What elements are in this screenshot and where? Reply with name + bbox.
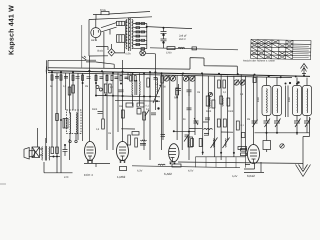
IF transformer 2	[188, 137, 193, 147]
mains transformer T1 primary	[126, 20, 127, 50]
scan mark	[0, 183, 6, 185]
tap contact boxes	[136, 23, 145, 50]
output transformer	[40, 138, 61, 161]
V2 socket box	[120, 167, 127, 171]
trimmer mid	[194, 118, 199, 125]
gang dots	[266, 83, 299, 134]
right vertical wires mid	[163, 74, 257, 161]
coil box terminals	[69, 134, 77, 143]
cap C24	[205, 118, 210, 120]
resistor R14	[56, 114, 59, 121]
cathode resistor R9	[56, 147, 59, 154]
mid vertical wires	[113, 54, 162, 160]
bypass cap C9	[63, 145, 68, 156]
variable capacitor 1b	[274, 116, 281, 133]
mains transformer T1 core	[126, 18, 131, 52]
svg-text:1,M62: 1,M62	[117, 175, 126, 179]
svg-text:50: 50	[50, 85, 53, 88]
padder box	[63, 119, 68, 129]
svg-text:0,5: 0,5	[240, 93, 244, 96]
trimmer cap right	[252, 120, 258, 128]
AVC box	[263, 136, 271, 152]
IF transformer 1	[132, 73, 140, 106]
blob osc	[157, 107, 159, 109]
antenna	[301, 64, 308, 76]
svg-text:5000: 5000	[206, 110, 212, 113]
RF coil can 1b	[273, 77, 282, 115]
oscillator coil box	[67, 110, 82, 134]
svg-text:1M: 1M	[197, 91, 200, 94]
HT wire from rectifier	[147, 27, 192, 29]
tube V2	[117, 142, 129, 163]
svg-text:2M: 2M	[247, 118, 250, 121]
variable capacitor 2a	[294, 116, 301, 133]
power supply box	[89, 17, 152, 56]
gang mid verticals	[286, 86, 289, 118]
speaker	[24, 147, 40, 159]
RF coil can 1a	[262, 77, 271, 116]
svg-text:450 V: 450 V	[179, 38, 186, 41]
smoothing resistor R1	[166, 47, 175, 55]
tone coil 1	[210, 98, 224, 109]
small trimmer circle	[209, 93, 213, 97]
svg-text:AZ 1: AZ 1	[91, 38, 97, 42]
link wires mid-right	[189, 122, 233, 132]
voltage selector S1	[117, 21, 125, 25]
main rail M wire	[48, 71, 310, 77]
screen box left	[242, 133, 246, 138]
coil with arrow 1	[211, 138, 218, 149]
tube V1	[85, 142, 96, 163]
V4 cathode wiring	[244, 162, 264, 172]
coupling caps boxes	[126, 103, 149, 108]
tone cap row	[204, 119, 245, 135]
svg-text:0,5: 0,5	[155, 83, 159, 86]
tone resistor	[238, 147, 247, 150]
svg-text:6,A02: 6,A02	[164, 172, 172, 176]
svg-text:0,5A: 0,5A	[126, 53, 131, 56]
bottom rail wire 2	[132, 166, 240, 168]
cap C25	[98, 112, 103, 114]
cap near V3 top	[161, 135, 166, 137]
fuse 0,5A	[93, 8, 150, 19]
svg-text:4,5V: 4,5V	[188, 170, 194, 173]
rail L wire	[48, 73, 292, 78]
socket circles	[96, 84, 111, 96]
resistor R23	[220, 96, 223, 104]
extra row resistors	[130, 76, 137, 81]
bottom wire under V1	[84, 164, 110, 168]
variable capacitor 1a	[264, 116, 271, 133]
svg-text:0,1: 0,1	[63, 85, 67, 88]
rail end ticks	[45, 67, 47, 74]
junction dots	[51, 26, 305, 84]
bottom rail wire 1	[44, 172, 73, 174]
trimmer circle V4 right	[280, 144, 284, 148]
link wire V2	[121, 128, 135, 130]
output terminal strip	[196, 157, 246, 168]
svg-text:5000: 5000	[288, 96, 291, 102]
resistor R21	[122, 110, 125, 118]
mid link wire	[96, 96, 160, 102]
cap C22	[151, 113, 156, 115]
svg-text:2M: 2M	[85, 85, 88, 88]
svg-text:6,3V: 6,3V	[232, 175, 238, 178]
trimmer arrow mid	[145, 110, 149, 116]
B+ rail wire	[150, 48, 238, 50]
voltage selector S2	[117, 35, 125, 53]
svg-text:300: 300	[119, 105, 124, 108]
trimmer group 1	[163, 76, 176, 89]
gang link wires	[255, 117, 310, 137]
svg-text:0,5: 0,5	[96, 128, 100, 131]
RF coil can 2a	[293, 78, 302, 116]
junction dots extra	[60, 95, 235, 154]
V2 cathode cluster	[128, 135, 147, 147]
svg-text:1M: 1M	[108, 132, 111, 135]
svg-text:1000: 1000	[228, 110, 234, 113]
padder cap	[174, 84, 181, 100]
tube socket table	[251, 39, 311, 59]
svg-text:30: 30	[163, 86, 166, 89]
left resistor R5	[102, 119, 105, 129]
svg-text:0,1: 0,1	[146, 105, 150, 108]
svg-text:470: 470	[64, 176, 69, 179]
bottom coil	[158, 164, 165, 165]
mains switch	[101, 23, 117, 69]
component row B	[111, 75, 158, 87]
resistor R12	[68, 87, 71, 95]
rail U wire	[48, 58, 237, 75]
trimmer group 2	[183, 76, 195, 82]
RF coil can 2b	[303, 78, 312, 116]
tube V3	[169, 144, 179, 165]
svg-text:ECH 4: ECH 4	[84, 173, 93, 177]
svg-text:6,B12: 6,B12	[247, 174, 255, 178]
oscillator coil L2	[153, 78, 161, 103]
svg-text:0,5A: 0,5A	[100, 8, 106, 12]
svg-text:0,1: 0,1	[241, 124, 245, 127]
mains transformer T1 secondary	[132, 19, 133, 49]
V2 input resistor	[132, 132, 139, 136]
tube V4	[248, 145, 260, 164]
svg-text:0,1: 0,1	[223, 91, 227, 94]
resistor R24	[227, 98, 230, 106]
grid resistor V4	[241, 149, 247, 156]
svg-text:500: 500	[174, 97, 179, 100]
resistor R22	[143, 112, 146, 120]
svg-text:Ansicht der Röhren v. unten: Ansicht der Röhren v. unten	[243, 59, 276, 62]
svg-text:0,1: 0,1	[146, 108, 150, 111]
component row A resistors and caps	[51, 75, 108, 84]
svg-text:50: 50	[183, 118, 186, 121]
mains on-off switch	[82, 25, 115, 69]
ground symbol	[296, 165, 311, 177]
bottom rail wire 3	[178, 162, 303, 163]
ground vertical wire	[302, 137, 304, 170]
power box bottom wire	[115, 52, 155, 55]
tiny value labels	[50, 72, 250, 135]
cap C23	[187, 108, 192, 110]
cathode resistor R8	[51, 147, 54, 154]
rectifier tube V5	[91, 19, 101, 42]
upper rail wire A	[48, 59, 86, 61]
bottom resistor	[172, 164, 181, 167]
anode link wire	[174, 130, 195, 132]
filter cap C2	[161, 39, 167, 48]
svg-text:1200: 1200	[166, 52, 172, 55]
bottom labels mid	[137, 170, 238, 179]
grid resistor mid	[161, 76, 179, 98]
left vertical wires	[44, 56, 107, 173]
svg-text:6,3V: 6,3V	[137, 170, 143, 173]
svg-text:Kapsch 441 W: Kapsch 441 W	[8, 5, 16, 55]
svg-text:Skala: Skala	[97, 50, 104, 53]
component row C resistors	[206, 78, 256, 109]
svg-text:5000: 5000	[257, 96, 260, 102]
variable capacitor 2b	[304, 116, 311, 133]
filter choke L1	[178, 47, 185, 48]
can labels	[257, 96, 291, 102]
fuse F2	[126, 50, 146, 56]
pilot lamp diamond	[96, 44, 115, 56]
trimmer near V3	[184, 134, 190, 142]
resistor R13	[72, 85, 75, 93]
speaker feed wire	[37, 128, 39, 147]
cap C21	[119, 90, 124, 92]
value text block	[179, 35, 187, 42]
transformer tap wires	[133, 24, 147, 49]
filter cap C1	[161, 28, 167, 39]
svg-text:5000: 5000	[92, 108, 98, 111]
coil with arrow 2	[223, 138, 230, 149]
tap bus wire	[146, 24, 148, 49]
lower resistor pair	[191, 139, 202, 147]
coupling cap mid	[187, 90, 192, 96]
box near IF2	[137, 109, 141, 115]
